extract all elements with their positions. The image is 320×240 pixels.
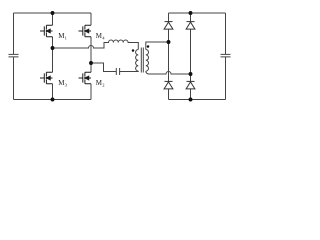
svg-text:2: 2 <box>102 82 105 87</box>
svg-text:1: 1 <box>65 35 68 40</box>
svg-text:4: 4 <box>102 35 105 40</box>
svg-text:3: 3 <box>65 82 68 87</box>
